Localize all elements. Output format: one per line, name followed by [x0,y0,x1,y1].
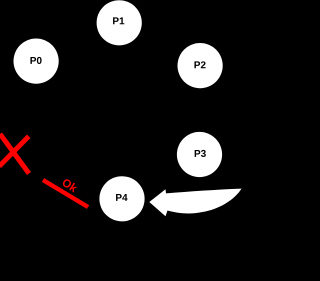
node P4 [99,176,144,221]
big white arrow pointing to P4 [149,189,241,217]
node P2 [178,43,223,88]
red label Ok (rotated) [61,178,78,193]
crashed node X marker [1,136,28,172]
node P3 [177,132,222,177]
crossed-out message line [43,180,88,207]
node P1 [97,0,142,45]
node P0 [13,39,58,84]
